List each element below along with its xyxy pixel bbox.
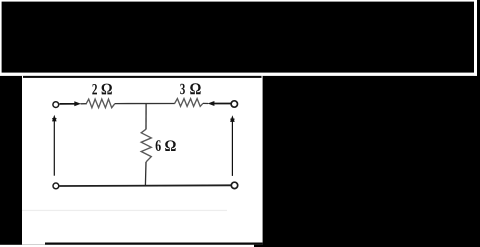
figure white panel [22,76,263,245]
arrowhead pointing right (current into network) [74,101,81,106]
wire: 3-ohm to left-pointing arrow tip [203,102,208,104]
right source arrow (up) [230,115,235,176]
page white right rule [474,0,477,76]
label 2 ohm [92,84,112,95]
label 6 ohm [156,140,176,151]
figure top border line [23,76,262,78]
wire: arrow tip to 2-ohm resistor [81,103,87,105]
label 3 ohm [180,83,200,94]
resistor 3 ohm (zigzag) [175,99,203,107]
page white left edge [0,0,2,75]
terminal: bottom-left open circle [53,183,59,189]
wire: 2-ohm to junction to 3-ohm [115,103,175,105]
resistor 6 ohm (vertical zigzag) [141,129,151,162]
page bottom white margin [0,245,254,247]
figure bottom border line [45,243,263,245]
left source arrow (up) [52,115,57,176]
faint scan smudge [22,210,227,211]
terminal: top-right open circle [231,101,237,107]
resistor 2 ohm (zigzag) [86,99,115,108]
wire: bottom rail [59,184,231,187]
terminal: top-left open circle [53,102,59,108]
wire: junction vertical drop from top rail [145,104,147,130]
wire: right arrow shaft on top rail [213,103,230,105]
wire: left arrow shaft on top rail [59,103,76,105]
wire: 6-ohm resistor to bottom rail [144,162,147,186]
white band under black header [0,73,477,76]
terminal: bottom-right open circle [231,182,237,188]
page white top edge [0,0,474,2]
arrowhead pointing left (current into network from right) [208,101,215,106]
